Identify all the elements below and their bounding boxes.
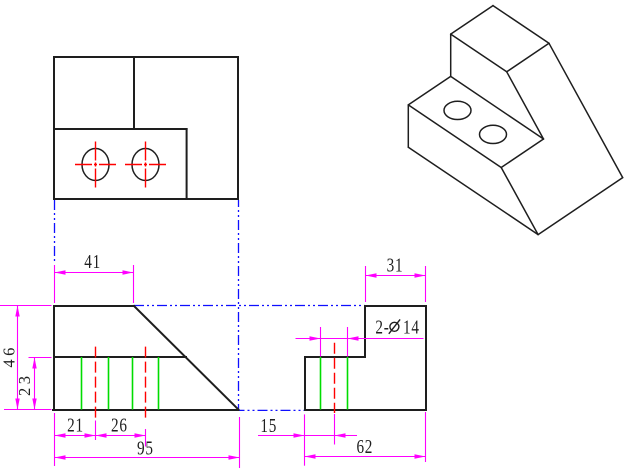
svg-text:2-: 2-	[375, 315, 389, 338]
svg-text:46: 46	[0, 344, 19, 368]
svg-text:62: 62	[356, 435, 373, 458]
svg-text:95: 95	[137, 436, 154, 459]
svg-text:15: 15	[260, 414, 277, 437]
svg-text:14: 14	[403, 315, 420, 338]
svg-text:31: 31	[387, 253, 404, 276]
svg-text:26: 26	[111, 414, 128, 437]
svg-text:41: 41	[84, 250, 101, 273]
svg-text:23: 23	[15, 373, 34, 397]
svg-text:21: 21	[67, 414, 84, 437]
